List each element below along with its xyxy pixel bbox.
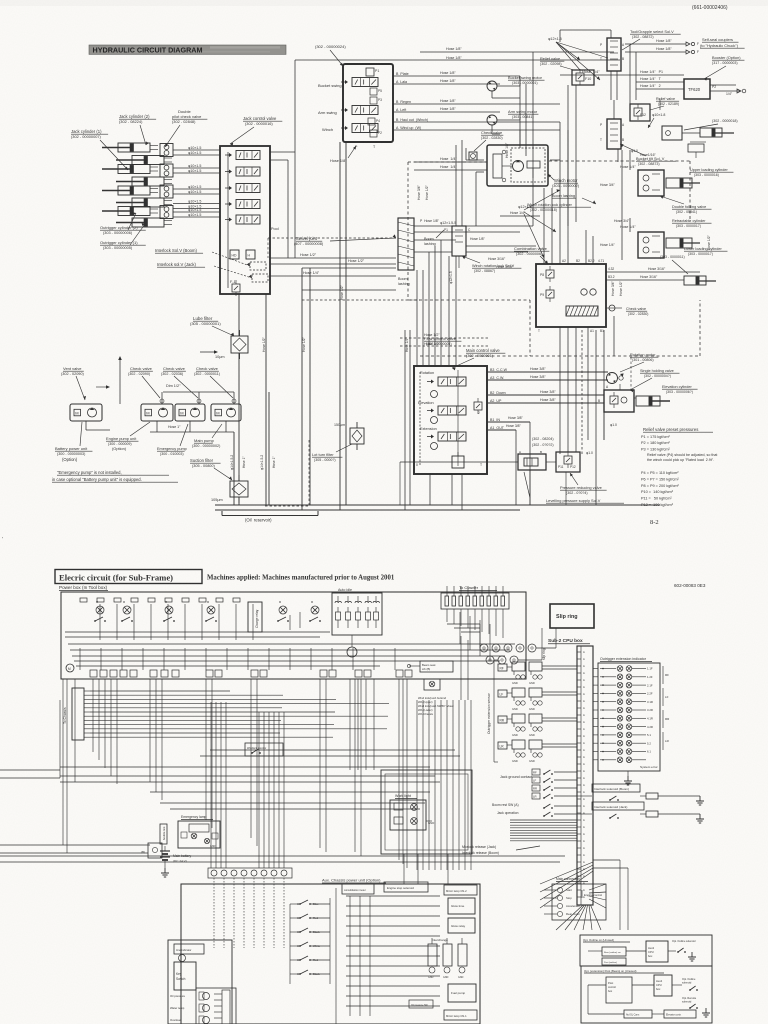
outrigger extension sensors [487,660,577,763]
left edge wires [0,700,60,778]
glow relay box [448,918,475,933]
power box bottom squares [90,670,412,677]
inner left box [168,940,232,1024]
chassis wire fan [90,691,389,737]
charge relay box [248,602,262,632]
power box fuse row [80,598,240,602]
wire right cylinders trunk [606,44,636,260]
hose quarter labels [414,157,487,170]
oil pressure sensor [170,992,210,1000]
choke coils [480,644,536,664]
hose 1/8 below valve [330,146,356,163]
glow time box [448,898,475,914]
beam seat box [407,661,453,672]
bucket swing motor [487,76,520,98]
M motor circle [66,664,74,672]
pump collector lines [118,346,218,404]
interlock solV boom label [155,248,250,266]
indicator wires left [593,669,598,760]
label jack control valve [230,116,282,146]
reservoir lines [215,505,660,510]
emergency note [52,470,178,482]
power box outline [61,592,526,679]
page number 8-2 [650,519,659,526]
phi10 small [631,149,657,157]
top feed lines [295,47,620,258]
dense wire bundle to cpu [510,820,577,841]
drop horizontals [60,750,460,809]
inner sensor box [196,988,236,1024]
power box inner wires [65,604,515,670]
key switch box [174,962,196,990]
title bar HYDRAULIC CIRCUIT DIAGRAM [89,45,286,54]
main pump label [192,424,222,448]
fan lines to connectors [540,862,593,908]
winch label [322,127,333,132]
mid vertical bundle [417,700,471,870]
check box 018 [662,126,700,140]
check valve label mid [469,130,503,160]
hose18 pair [414,219,452,226]
oil pressure sw label [409,1000,433,1008]
aux inner verticals [335,888,337,1024]
wire combination down [560,327,588,455]
leveling supply label [524,472,624,503]
arrow fan phi12b [524,189,560,258]
upper loading cyl label [690,168,733,177]
dashed boundary bottom [408,300,700,356]
boom lashing right [552,194,596,204]
right verticals [456,60,630,505]
cpu fan out bottom [556,860,628,930]
enclosure box right [381,770,472,854]
leveling refs [532,423,617,455]
suction filter [211,475,248,503]
battery power unit label [55,422,92,462]
trunk verticals [234,142,346,510]
hose right mid [611,234,711,296]
wire booster T [650,85,736,112]
battery power unit [70,404,102,421]
relief valve F10 [572,69,594,85]
wire main valve bottom [430,474,462,510]
aux box switch column [290,898,330,984]
morlock release labels [462,845,540,855]
indicator gnd [624,771,632,785]
jack and outrigger cylinders (8) [102,143,172,227]
arm swing motor [487,112,520,125]
label outrigger cylinder (2) [100,212,146,235]
interlock solenoid jack [592,802,704,823]
misc arrow labels [449,211,630,284]
label jack cylinder (2) [119,114,156,145]
morlock small box [245,743,283,756]
crawler wires up [447,586,503,596]
sub2 cpu bar [577,646,593,905]
suction filter label [190,458,232,480]
aux box inner wires [346,896,440,1016]
outrigger extension indicator [598,657,670,771]
double pilot check valves (4) [160,144,173,219]
winch rotation lock valve [444,226,486,268]
interlock solV jack label [157,262,252,278]
aux chassis label [322,878,386,884]
consolidation meter [342,884,374,894]
lube filter [215,330,248,359]
hose labels mid2 [417,142,509,200]
engine pump unit label [106,422,150,451]
combination valve box [536,264,606,327]
booster box [684,79,710,99]
label jack cylinder (1) [71,129,128,170]
doc number top-right [692,5,728,11]
label double pilot check valve [165,109,207,147]
elevation cylinder [636,396,670,406]
winch lock cyl label [527,203,591,212]
wire mid dashes [268,238,396,268]
mirror lamp cn1 [444,1010,477,1020]
comb out right [606,267,716,285]
main pump [211,404,241,421]
main connectors group [544,877,606,920]
flow control valve label [424,336,461,346]
phi12 labels [440,37,608,225]
slipring rotated text [542,648,546,660]
pressure reducing label [560,473,607,495]
dashed hoses above main valve [400,333,490,346]
main control valve label [452,348,505,370]
relief pressures text [641,427,717,507]
boom lashing label1 [424,230,444,246]
tool grapple label [622,29,681,50]
dashed boundary top [408,161,690,300]
main control valve box [414,366,487,474]
time indicator [174,944,204,962]
port lines right of winch valve [393,71,560,130]
sub2 cpu label [548,638,590,644]
bucket tilt label [620,144,676,166]
engine pump unit [141,404,173,421]
bottom horizontals [0,845,565,862]
lower loading cyl label [684,247,727,256]
arm swing motor label [508,109,538,119]
bucket swing label [318,83,342,88]
rotation motor [607,373,624,384]
boom lashing label2 [398,277,410,286]
power box label [59,585,108,591]
ref 018 label [684,119,738,130]
lower double folding valve [638,232,664,258]
lower loading cylinder [666,238,700,248]
hose labels right cluster [600,165,636,247]
retractable cyl label [672,219,712,228]
jack control valve box internals [220,146,270,296]
elevation cyl label [662,385,698,394]
water temp sensor [170,1004,210,1012]
self seal couplers [625,39,699,54]
fuel pump box [448,984,476,1002]
arrow fan phi12 [556,42,600,80]
coil wires [447,609,556,700]
wires swivel to main valve [417,240,441,366]
combination valve label [514,246,549,264]
dashed drops [214,878,284,948]
upper loading cylinder [666,178,700,188]
double folding valve label [660,196,712,214]
rotation motor label [620,352,658,377]
winch rotation label [462,256,521,273]
left edge mark [0,6,768,543]
bucket tilt valve [600,119,625,149]
wire elevation pair [487,390,680,406]
winch valve assembly box [341,64,393,149]
pump wires [86,392,236,432]
power box relays [94,600,321,622]
wires ports down [516,422,530,505]
main battery [160,846,191,877]
option box 1 [580,935,712,966]
return filter label [312,444,352,462]
wire tool valve vert [560,30,617,100]
connector row [208,868,292,878]
single holding valve [598,385,634,412]
relief valve F10 label [540,56,574,70]
winch motor box [487,145,548,186]
return filter [334,422,364,450]
winch valve ref [315,44,346,66]
mirror lamp cn2 [444,885,477,895]
wire jack valve right [270,152,295,258]
work light note [418,696,454,716]
emergency pump label [157,424,188,456]
slip ring box [550,604,594,628]
bucket swing motor label [508,75,545,85]
emergency pump [175,404,205,421]
leveling valve B [556,452,580,472]
leveling valve A [518,450,546,470]
tank dashed [265,440,309,506]
bundle bends [300,699,417,701]
wire pair top right verticals [520,52,593,264]
ref 0011 label [660,255,688,274]
electric title box [55,570,202,584]
hose1 text [150,425,234,432]
wire comb to motor [570,372,608,390]
left small conn [141,843,162,858]
to crawler connector [441,593,509,609]
upper double folding valve [638,170,664,196]
option box 2 [581,966,712,1023]
to chassis connector [63,688,90,740]
single holding valve label [630,369,680,392]
wire swivel to winch [414,226,536,252]
label outrigger cylinder (1) [100,223,146,250]
overload sensor [170,1016,210,1024]
main valve left verticals [405,330,410,510]
fusible link [160,824,167,844]
relief F12 label [650,97,679,110]
combination ports [538,259,615,333]
work light box [390,794,434,830]
tool grapple select valve [600,38,625,71]
aux chassis outer box [181,884,480,1024]
leveling wires [400,462,566,505]
winch motor label [548,174,580,188]
dashed vert holding [630,357,632,391]
lube filter label [190,316,234,336]
check valve right [606,305,648,316]
hose 1/4 mid [560,70,636,75]
interlock solenoid boom [592,784,704,805]
to crawler label [459,585,497,591]
wire motor stubs [487,76,520,134]
dim 1/2 line [163,384,234,398]
interlock wires [577,796,592,814]
winch lock line [466,257,536,269]
power box drop wires [63,679,407,868]
jack ground contact [492,769,577,817]
bundle into connector row [211,702,448,884]
cpu pin ticks [577,650,585,899]
emergency lamp box [178,815,220,848]
mid horizontals [270,253,420,300]
wires winch lock down [449,256,456,366]
interchange lamps [428,938,467,979]
engine stop solenoid [384,882,428,892]
phi10x18 [648,113,665,128]
machines applied text [207,575,395,582]
self seal label [700,37,745,48]
booster label [704,55,744,81]
wire holding valve links [588,384,636,440]
beam lamp [424,679,440,690]
jack hoses phi10x1.5 [173,146,220,217]
auto idle group [332,588,382,657]
arm swing label [318,110,337,115]
pool label [271,227,279,231]
doc number electric [674,583,706,588]
booster ports [636,70,746,96]
swivel joint [398,218,414,270]
reservoir bracket [222,511,318,523]
swivel joint label [294,234,396,246]
wire winch links [466,148,560,226]
relief valve F12 [630,104,650,121]
check valve labels row [128,366,233,398]
tilt cylinder [688,128,734,158]
vent valve label [61,366,110,400]
trunk rotated labels [230,284,344,470]
main valve ports [487,367,608,430]
